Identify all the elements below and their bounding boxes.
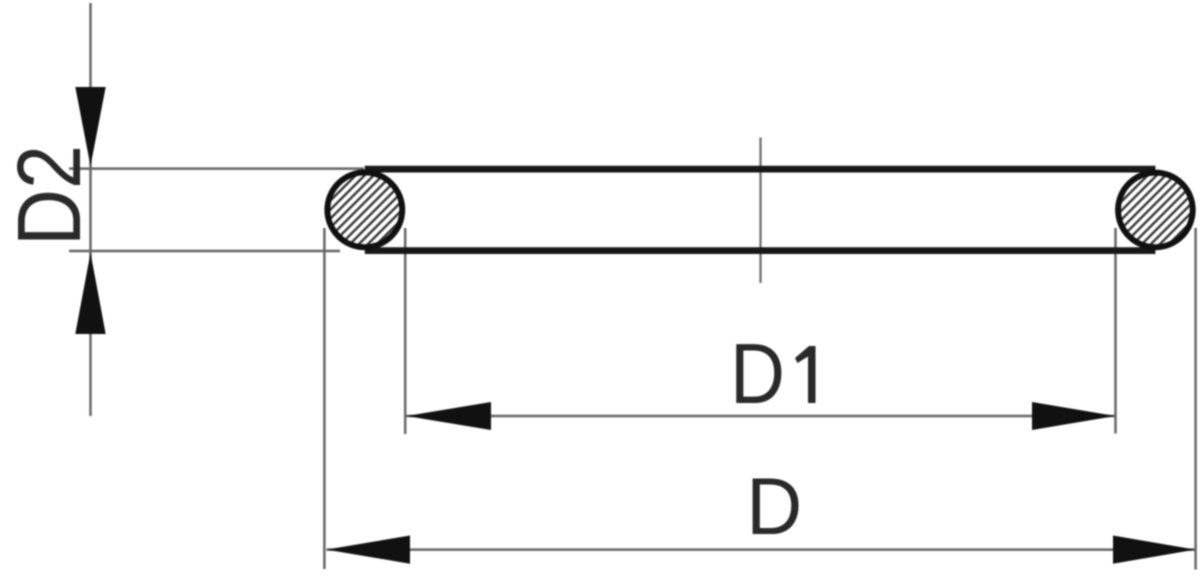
- arrowhead D2 top (points down): [75, 87, 105, 166]
- centerline: [759, 138, 761, 284]
- svg-text:D2: D2: [0, 145, 100, 246]
- extension line D1 left: [404, 228, 407, 434]
- dimension line D: [327, 548, 1196, 551]
- arrowhead D1 left: [406, 402, 491, 430]
- o-ring bottom tangent line: [365, 247, 1156, 254]
- extension line D right: [1194, 228, 1197, 570]
- dimension line D2 (vertical): [89, 3, 92, 416]
- dimension line D1: [406, 415, 1116, 418]
- extension line D2 top: [69, 167, 364, 170]
- svg-text:D: D: [730, 327, 785, 422]
- arrowhead D2 bottom (points up): [75, 253, 105, 334]
- o-ring cross-section right (hatched): [1118, 173, 1193, 248]
- o-ring top tangent line: [365, 166, 1156, 173]
- extension line D left: [323, 228, 326, 569]
- svg-text:D: D: [746, 462, 802, 552]
- o-ring cross-section left (hatched): [327, 172, 402, 247]
- extension line D2 bottom: [69, 250, 340, 253]
- arrowhead D1 right: [1032, 402, 1115, 430]
- extension line D1 right: [1114, 228, 1117, 434]
- arrowhead D left: [326, 536, 410, 564]
- arrowhead D right: [1113, 536, 1195, 564]
- label D1 digit 1: [795, 346, 816, 403]
